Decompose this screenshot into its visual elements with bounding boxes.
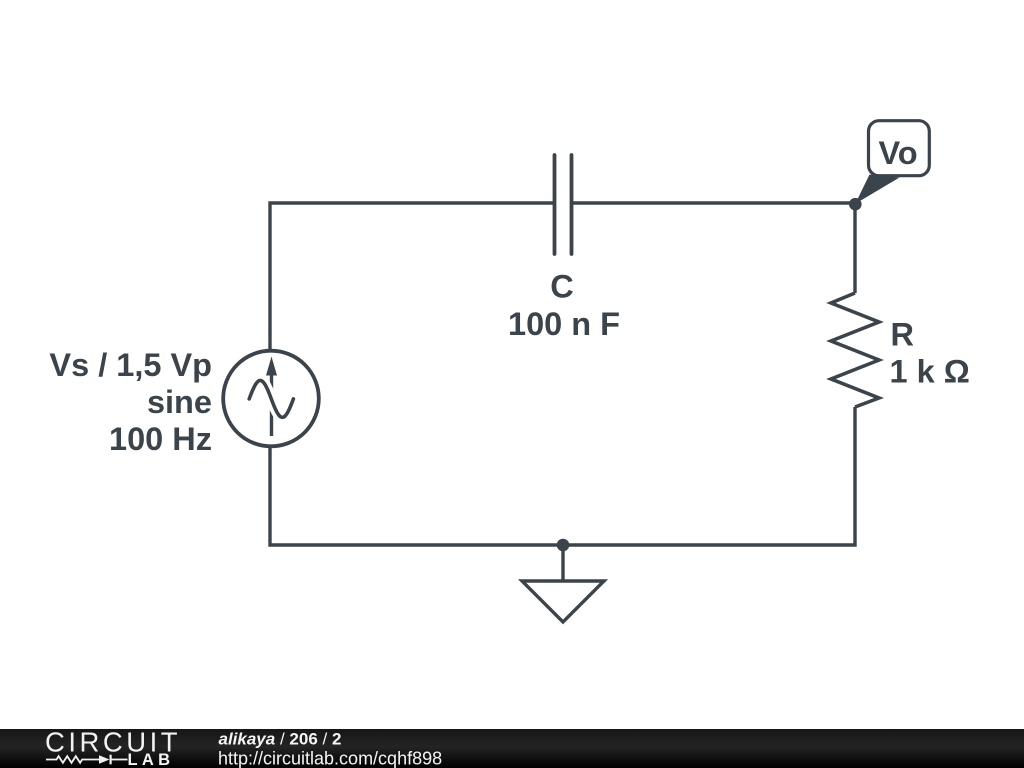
wire top-right horizontal (capacitor C right plate to node Vo) <box>573 201 855 204</box>
CircuitLab logo diode <box>99 755 128 765</box>
node Vo label text <box>878 135 917 171</box>
ground junction dot <box>557 539 570 552</box>
wire from source V1 top up and across to capacitor C left plate <box>270 203 553 351</box>
CircuitLab logo CIRCUIT text <box>45 727 181 758</box>
resistor R value label 1 k Ohm <box>890 354 970 390</box>
node Vo flag pointer wedge <box>855 175 899 204</box>
voltage source V1 sine wave <box>249 381 293 418</box>
capacitor C plates <box>555 155 572 254</box>
resistor R name label <box>891 317 914 353</box>
svg-text:http://circuitlab.com/cqhf898: http://circuitlab.com/cqhf898 <box>218 749 442 768</box>
CircuitLab logo LAB text <box>128 751 175 768</box>
node Vo flag box <box>869 121 930 176</box>
svg-text:1 k Ω: 1 k Ω <box>890 354 970 390</box>
svg-text:sine: sine <box>147 384 212 420</box>
wire from source V1 bottom, along bottom net, up to resistor R bottom <box>270 407 855 545</box>
voltage source V1 circle <box>223 351 319 447</box>
resistor R zigzag <box>831 293 879 407</box>
voltage source V1 arrow <box>266 357 277 437</box>
svg-text:100 n F: 100 n F <box>508 306 620 342</box>
ground triangle symbol <box>522 581 604 622</box>
node Vo junction dot <box>849 198 862 211</box>
capacitor C name label <box>550 269 573 305</box>
svg-text:LAB: LAB <box>128 751 175 768</box>
capacitor C value label 100 n F <box>508 306 620 342</box>
ground stem wire <box>561 545 564 581</box>
svg-text:C: C <box>550 269 573 305</box>
svg-text:100 Hz: 100 Hz <box>109 421 212 457</box>
footer url line <box>218 749 442 768</box>
footer bar <box>0 729 1024 768</box>
voltage source V1 frequency label 100 Hz <box>109 421 212 457</box>
footer author line alikaya / 206 / 2 <box>219 730 342 749</box>
voltage source V1 type label sine <box>147 384 212 420</box>
voltage source V1 name label Vs / 1,5 Vp <box>49 347 212 383</box>
svg-text:R: R <box>891 317 914 353</box>
svg-text:Vs / 1,5 Vp: Vs / 1,5 Vp <box>49 347 212 383</box>
CircuitLab logo resistor zigzag <box>46 756 99 763</box>
wire right vertical upper (node Vo to resistor R top) <box>853 203 856 293</box>
svg-text:alikaya / 206 / 2: alikaya / 206 / 2 <box>219 730 342 749</box>
svg-text:Vo: Vo <box>878 135 917 171</box>
